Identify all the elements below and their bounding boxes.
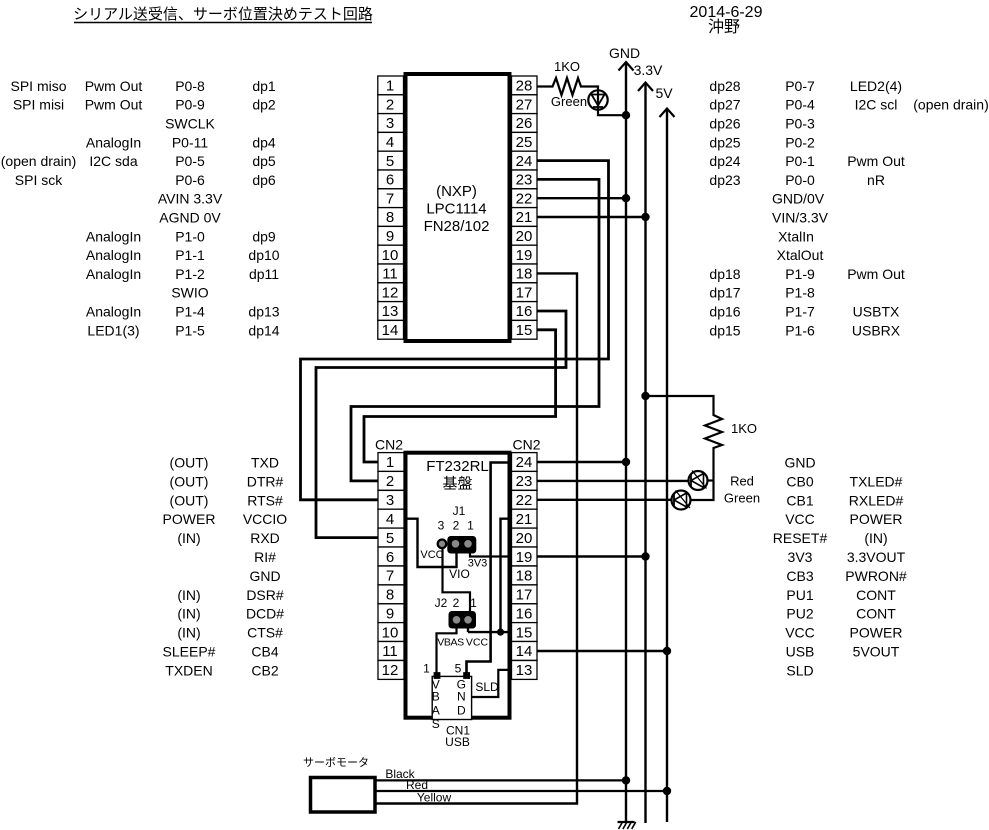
svg-text:SPI miso: SPI miso <box>10 78 66 94</box>
svg-text:D: D <box>457 704 466 718</box>
svg-text:15: 15 <box>516 624 533 641</box>
svg-text:TXLED#: TXLED# <box>850 473 903 489</box>
svg-text:P0-6: P0-6 <box>175 172 205 188</box>
svg-text:3: 3 <box>386 492 394 509</box>
svg-text:J1: J1 <box>453 504 466 518</box>
svg-text:GND: GND <box>784 455 815 471</box>
svg-text:CONT: CONT <box>856 606 896 622</box>
svg-text:VCC: VCC <box>785 625 815 641</box>
svg-text:dp15: dp15 <box>709 322 740 338</box>
svg-text:CB3: CB3 <box>786 568 813 584</box>
svg-text:dp2: dp2 <box>252 97 276 113</box>
svg-text:基盤: 基盤 <box>442 476 472 493</box>
svg-text:P0-5: P0-5 <box>175 153 205 169</box>
svg-text:CB1: CB1 <box>786 492 813 508</box>
svg-text:P1-7: P1-7 <box>785 304 815 320</box>
svg-text:GND: GND <box>609 45 640 61</box>
svg-text:dp28: dp28 <box>709 78 740 94</box>
svg-text:P1-6: P1-6 <box>785 322 815 338</box>
svg-text:SPI sck: SPI sck <box>15 172 63 188</box>
svg-text:dp6: dp6 <box>252 172 276 188</box>
svg-text:AnalogIn: AnalogIn <box>86 304 141 320</box>
svg-text:23: 23 <box>516 172 533 189</box>
svg-text:1: 1 <box>423 662 430 676</box>
svg-text:14: 14 <box>516 643 533 660</box>
svg-text:I2C sda: I2C sda <box>89 153 137 169</box>
svg-text:CB0: CB0 <box>786 473 813 489</box>
svg-text:AGND 0V: AGND 0V <box>159 210 221 226</box>
svg-text:AnalogIn: AnalogIn <box>86 266 141 282</box>
svg-text:dp10: dp10 <box>248 247 279 263</box>
svg-text:DCD#: DCD# <box>246 606 284 622</box>
svg-text:P0-0: P0-0 <box>785 172 815 188</box>
svg-text:CONT: CONT <box>856 587 896 603</box>
svg-text:GND: GND <box>249 568 280 584</box>
svg-text:5: 5 <box>386 530 394 547</box>
svg-text:Green: Green <box>551 94 587 109</box>
svg-text:12: 12 <box>382 284 399 301</box>
svg-text:9: 9 <box>386 228 394 245</box>
svg-text:USBRX: USBRX <box>852 322 901 338</box>
svg-text:POWER: POWER <box>850 625 903 641</box>
svg-text:USBTX: USBTX <box>853 304 900 320</box>
svg-text:(IN): (IN) <box>177 587 200 603</box>
svg-text:dp4: dp4 <box>252 134 276 150</box>
svg-text:6: 6 <box>386 172 394 189</box>
svg-text:(NXP): (NXP) <box>436 183 477 200</box>
svg-text:dp25: dp25 <box>709 134 740 150</box>
svg-text:9: 9 <box>386 606 394 623</box>
svg-text:CN2: CN2 <box>375 437 403 453</box>
svg-text:17: 17 <box>516 587 533 604</box>
svg-text:RESET#: RESET# <box>773 530 828 546</box>
svg-text:VCC: VCC <box>466 637 489 649</box>
svg-text:RXD: RXD <box>250 530 280 546</box>
svg-text:16: 16 <box>516 303 533 320</box>
svg-text:2: 2 <box>453 596 460 610</box>
svg-text:VBAS: VBAS <box>437 637 464 649</box>
svg-text:SLD: SLD <box>475 680 499 694</box>
svg-text:Pwm Out: Pwm Out <box>847 153 905 169</box>
svg-text:P1-0: P1-0 <box>175 228 205 244</box>
svg-text:4: 4 <box>386 511 394 528</box>
svg-text:16: 16 <box>516 606 533 623</box>
svg-text:CN2: CN2 <box>512 437 540 453</box>
svg-text:3.3V: 3.3V <box>634 62 663 78</box>
svg-text:21: 21 <box>516 209 533 226</box>
svg-text:TXDEN: TXDEN <box>165 662 212 678</box>
svg-text:P1-5: P1-5 <box>175 322 205 338</box>
svg-text:AVIN 3.3V: AVIN 3.3V <box>158 191 223 207</box>
svg-text:PWRON#: PWRON# <box>845 568 907 584</box>
svg-text:USB: USB <box>786 644 815 660</box>
svg-text:シリアル送受信、サーボ位置決めテスト回路: シリアル送受信、サーボ位置決めテスト回路 <box>73 6 373 23</box>
svg-text:Pwm Out: Pwm Out <box>847 266 905 282</box>
svg-text:サーボモータ: サーボモータ <box>303 756 369 769</box>
svg-text:18: 18 <box>516 266 533 283</box>
svg-text:Pwm Out: Pwm Out <box>85 78 143 94</box>
svg-text:dp5: dp5 <box>252 153 276 169</box>
svg-text:22: 22 <box>516 492 533 509</box>
svg-text:1: 1 <box>386 454 394 471</box>
svg-text:8: 8 <box>386 209 394 226</box>
svg-text:J2: J2 <box>435 596 448 610</box>
svg-text:VCC: VCC <box>785 511 815 527</box>
svg-text:2: 2 <box>386 473 394 490</box>
svg-text:dp16: dp16 <box>709 304 740 320</box>
svg-text:RI#: RI# <box>254 549 276 565</box>
svg-text:19: 19 <box>516 247 533 264</box>
svg-text:dp17: dp17 <box>709 285 740 301</box>
svg-text:1: 1 <box>386 78 394 95</box>
svg-text:TXD: TXD <box>251 455 279 471</box>
svg-text:(OUT): (OUT) <box>170 492 209 508</box>
svg-text:VCC: VCC <box>420 549 443 561</box>
svg-text:沖野: 沖野 <box>708 18 740 36</box>
svg-text:SWCLK: SWCLK <box>165 116 215 132</box>
svg-text:3: 3 <box>438 519 445 533</box>
svg-text:(OUT): (OUT) <box>170 455 209 471</box>
svg-text:P0-4: P0-4 <box>785 97 815 113</box>
svg-text:27: 27 <box>516 96 533 113</box>
svg-text:(IN): (IN) <box>177 606 200 622</box>
svg-text:POWER: POWER <box>850 511 903 527</box>
svg-text:PU2: PU2 <box>786 606 813 622</box>
svg-text:25: 25 <box>516 134 533 151</box>
svg-text:XtalOut: XtalOut <box>777 247 824 263</box>
svg-text:1: 1 <box>467 519 474 533</box>
svg-text:5V: 5V <box>655 85 673 101</box>
svg-text:Green: Green <box>724 491 760 506</box>
svg-text:12: 12 <box>382 662 399 679</box>
svg-text:S: S <box>432 717 440 731</box>
svg-text:13: 13 <box>382 303 399 320</box>
svg-text:1KO: 1KO <box>554 59 580 74</box>
svg-text:P0-3: P0-3 <box>785 116 815 132</box>
svg-text:dp18: dp18 <box>709 266 740 282</box>
svg-text:5: 5 <box>455 662 462 676</box>
svg-text:GND/0V: GND/0V <box>772 191 825 207</box>
svg-text:I2C scl: I2C scl <box>855 97 898 113</box>
svg-text:3V3: 3V3 <box>468 558 488 570</box>
svg-text:23: 23 <box>516 473 533 490</box>
svg-text:10: 10 <box>382 624 399 641</box>
svg-text:XtalIn: XtalIn <box>778 228 814 244</box>
svg-text:19: 19 <box>516 549 533 566</box>
svg-text:SPI misi: SPI misi <box>13 97 64 113</box>
svg-text:dp26: dp26 <box>709 116 740 132</box>
svg-text:SLD: SLD <box>786 662 813 678</box>
svg-text:26: 26 <box>516 115 533 132</box>
svg-text:1: 1 <box>470 596 477 610</box>
svg-text:(OUT): (OUT) <box>170 473 209 489</box>
svg-text:B: B <box>432 690 440 704</box>
svg-text:LED2(4): LED2(4) <box>850 78 902 94</box>
svg-text:6: 6 <box>386 549 394 566</box>
svg-text:20: 20 <box>516 228 533 245</box>
svg-text:P0-9: P0-9 <box>175 97 205 113</box>
svg-text:P1-8: P1-8 <box>785 285 815 301</box>
svg-text:2: 2 <box>386 96 394 113</box>
svg-text:15: 15 <box>516 322 533 339</box>
svg-text:8: 8 <box>386 587 394 604</box>
svg-text:SWIO: SWIO <box>171 285 208 301</box>
svg-text:P1-2: P1-2 <box>175 266 205 282</box>
svg-text:10: 10 <box>382 247 399 264</box>
svg-text:Red: Red <box>730 474 754 489</box>
svg-text:P1-4: P1-4 <box>175 304 205 320</box>
svg-text:(open drain): (open drain) <box>913 97 989 113</box>
svg-text:RXLED#: RXLED# <box>849 492 904 508</box>
svg-text:3.3VOUT: 3.3VOUT <box>847 549 906 565</box>
svg-text:14: 14 <box>382 322 399 339</box>
svg-text:13: 13 <box>516 662 533 679</box>
svg-text:RTS#: RTS# <box>247 492 283 508</box>
svg-text:P0-7: P0-7 <box>785 78 815 94</box>
svg-text:22: 22 <box>516 190 533 207</box>
svg-text:FN28/102: FN28/102 <box>424 218 490 235</box>
svg-text:N: N <box>457 690 466 704</box>
svg-text:USB: USB <box>445 735 470 749</box>
svg-text:Pwm Out: Pwm Out <box>85 97 143 113</box>
svg-text:28: 28 <box>516 78 533 95</box>
svg-text:17: 17 <box>516 284 533 301</box>
svg-text:24: 24 <box>516 454 533 471</box>
svg-text:CB4: CB4 <box>251 644 278 660</box>
svg-text:SLEEP#: SLEEP# <box>163 644 216 660</box>
svg-text:CTS#: CTS# <box>247 625 283 641</box>
svg-text:AnalogIn: AnalogIn <box>86 134 141 150</box>
svg-text:A: A <box>432 704 440 718</box>
svg-text:PU1: PU1 <box>786 587 813 603</box>
svg-text:dp11: dp11 <box>249 266 279 282</box>
svg-text:11: 11 <box>382 643 398 660</box>
svg-text:POWER: POWER <box>163 511 216 527</box>
svg-text:P0-2: P0-2 <box>785 134 815 150</box>
svg-text:DSR#: DSR# <box>246 587 284 603</box>
svg-text:nR: nR <box>867 172 885 188</box>
svg-text:(IN): (IN) <box>864 530 887 546</box>
svg-text:CB2: CB2 <box>251 662 278 678</box>
svg-text:P0-1: P0-1 <box>785 153 815 169</box>
svg-text:3V3: 3V3 <box>788 549 813 565</box>
svg-text:1KO: 1KO <box>731 421 757 436</box>
svg-text:dp23: dp23 <box>709 172 740 188</box>
svg-text:3: 3 <box>386 115 394 132</box>
svg-text:(open drain): (open drain) <box>1 153 77 169</box>
svg-text:dp1: dp1 <box>252 78 276 94</box>
svg-text:P1-1: P1-1 <box>175 247 205 263</box>
svg-text:P0-8: P0-8 <box>175 78 205 94</box>
svg-text:4: 4 <box>386 134 394 151</box>
svg-text:VIO: VIO <box>449 567 470 581</box>
svg-text:dp9: dp9 <box>252 228 276 244</box>
svg-text:5VOUT: 5VOUT <box>853 644 900 660</box>
svg-text:Yellow: Yellow <box>417 791 452 805</box>
svg-text:2: 2 <box>453 519 460 533</box>
svg-text:(IN): (IN) <box>177 530 200 546</box>
svg-text:DTR#: DTR# <box>247 473 284 489</box>
svg-text:LPC1114: LPC1114 <box>426 201 486 218</box>
svg-text:P0-11: P0-11 <box>172 134 209 150</box>
svg-text:VCCIO: VCCIO <box>243 511 287 527</box>
svg-text:7: 7 <box>386 568 394 585</box>
svg-text:dp13: dp13 <box>248 304 279 320</box>
svg-text:dp27: dp27 <box>709 97 740 113</box>
svg-text:20: 20 <box>516 530 533 547</box>
svg-text:(IN): (IN) <box>177 625 200 641</box>
svg-text:18: 18 <box>516 568 533 585</box>
svg-text:7: 7 <box>386 190 394 207</box>
svg-text:VIN/3.3V: VIN/3.3V <box>772 210 829 226</box>
svg-text:dp24: dp24 <box>709 153 740 169</box>
svg-text:24: 24 <box>516 153 533 170</box>
svg-text:dp14: dp14 <box>248 322 279 338</box>
svg-text:11: 11 <box>382 266 398 283</box>
svg-text:AnalogIn: AnalogIn <box>86 228 141 244</box>
svg-text:LED1(3): LED1(3) <box>87 322 139 338</box>
svg-text:AnalogIn: AnalogIn <box>86 247 141 263</box>
svg-text:5: 5 <box>386 153 394 170</box>
svg-text:FT232RL: FT232RL <box>426 458 489 475</box>
svg-text:21: 21 <box>516 511 533 528</box>
svg-text:P1-9: P1-9 <box>785 266 815 282</box>
